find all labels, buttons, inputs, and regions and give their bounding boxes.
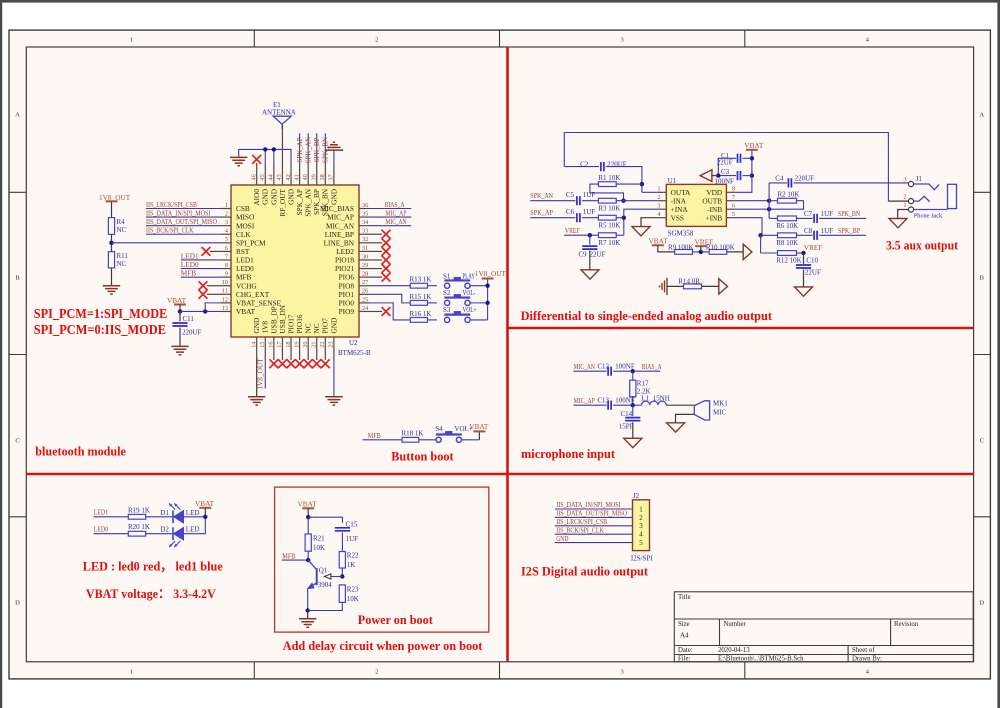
wire -INB pin 6 — [735, 208, 769, 210]
wire R14 to arrow — [702, 285, 719, 287]
svg-text:3.5 aux output: 3.5 aux output — [886, 238, 959, 253]
svg-text:2020-04-13: 2020-04-13 — [718, 647, 750, 654]
svg-text:C: C — [15, 437, 19, 444]
svg-text:19: 19 — [293, 342, 300, 348]
svg-text:2: 2 — [375, 36, 378, 43]
junction VBAT rail D1 — [203, 515, 207, 519]
U2 pin 31 stub — [359, 250, 369, 252]
svg-text:10K: 10K — [347, 595, 359, 603]
svg-text:L1: L1 — [641, 394, 649, 402]
svg-text:7: 7 — [225, 253, 228, 260]
svg-text:MFB: MFB — [282, 552, 295, 560]
wire R1 left routing to -INA node — [590, 184, 624, 201]
svg-text:1V8_OUT: 1V8_OUT — [475, 269, 507, 278]
wire net IIS_BCK/SPI_CLK to J2 pin 4 — [555, 533, 633, 535]
Q1 base arrowhead — [324, 574, 331, 579]
earth symbol above pin 37 — [325, 142, 344, 150]
svg-text:D2: D2 — [160, 526, 169, 534]
svg-text:Phone Jack: Phone Jack — [914, 212, 943, 219]
wire net IIS_DATA_IN/SPI_MOSI to pin 2 — [146, 216, 221, 218]
wire S1 to 1V8_OUT rail — [470, 285, 488, 287]
svg-text:S3: S3 — [443, 306, 451, 314]
svg-text:45: 45 — [259, 174, 266, 180]
wire R6 to C7 — [797, 217, 813, 219]
svg-text:12: 12 — [222, 296, 228, 303]
U2 pin 13 stub — [221, 310, 231, 312]
svg-text:VBAT: VBAT — [236, 307, 256, 316]
junction pin 45 — [263, 147, 267, 151]
svg-text:VREF: VREF — [565, 227, 580, 235]
svg-text:IIS_BCK/SPI_CLK: IIS_BCK/SPI_CLK — [556, 526, 604, 534]
wire net LED0 to pin 8 — [181, 268, 221, 270]
svg-text:R2 10K: R2 10K — [778, 191, 800, 199]
wire VBAT drop — [478, 431, 480, 439]
no-connect X pin 21 — [312, 359, 321, 368]
wire SPK_AN to C5 — [530, 200, 575, 202]
wire pin 25 jog to R16 — [369, 303, 410, 320]
wire stub pin 29 — [369, 268, 382, 270]
no-connect X pin 11 CHG_EXT — [199, 290, 208, 299]
svg-text:Date:: Date: — [678, 647, 693, 654]
svg-text:SPK_AN: SPK_AN — [530, 192, 553, 200]
switch S4 — [436, 437, 441, 442]
U2 pin 19 stub — [299, 337, 301, 360]
svg-text:R17: R17 — [637, 380, 649, 388]
wire pin 26 jog to R15 — [369, 294, 410, 303]
capacitor C11 — [179, 311, 181, 321]
no-connect X pin 17 — [278, 359, 287, 368]
svg-text:31: 31 — [362, 245, 368, 252]
svg-text:20: 20 — [302, 342, 309, 348]
svg-text:3: 3 — [620, 668, 623, 675]
bluetooth module chip U2 body — [231, 185, 359, 337]
wire R9 to VREF junction — [693, 251, 710, 253]
svg-text:R23: R23 — [347, 586, 359, 594]
wire C7 to SPK_BN — [819, 217, 866, 219]
svg-text:1V8_OUT: 1V8_OUT — [256, 358, 265, 390]
svg-text:SPK_AP: SPK_AP — [530, 209, 553, 217]
junction BIAS_A/R17 — [631, 369, 635, 373]
svg-text:IIS_DATA_OUT/SPI_MISO: IIS_DATA_OUT/SPI_MISO — [146, 218, 217, 226]
U2 pin 40 stub — [307, 163, 309, 185]
svg-text:VBAT: VBAT — [744, 141, 764, 150]
svg-text:C13: C13 — [597, 396, 609, 404]
svg-text:9: 9 — [225, 271, 228, 278]
junction MFB/R21/Q1 — [306, 558, 310, 562]
wire R20 to D2 — [146, 533, 173, 535]
svg-text:MFB: MFB — [368, 432, 381, 440]
resistor R2 — [778, 198, 797, 203]
wire R18 to S4 — [419, 439, 439, 441]
svg-text:7: 7 — [732, 194, 735, 201]
svg-text:R8 10K: R8 10K — [776, 239, 798, 247]
svg-text:IIS_DATA_IN/SPI_MOSI: IIS_DATA_IN/SPI_MOSI — [146, 209, 211, 217]
wire C3 left lead — [718, 175, 736, 177]
wire L1 to microphone — [666, 404, 694, 406]
wire jog to VBAT_SENSE pin 12 — [205, 303, 221, 312]
no-connect X pin 46 — [252, 155, 261, 164]
svg-text:3: 3 — [225, 219, 228, 226]
U2 pin 17 stub — [281, 337, 283, 360]
ground power-on-boot — [299, 619, 316, 627]
junction C1 right — [750, 156, 754, 160]
svg-text:24: 24 — [362, 305, 369, 312]
svg-text:U1: U1 — [668, 177, 677, 185]
wire net IIS_DATA_OUT/SPI_MISO to pin 3 — [146, 225, 221, 227]
svg-text:32: 32 — [362, 236, 368, 243]
svg-text:1K: 1K — [347, 561, 356, 569]
junction R9/R10/VREF — [699, 250, 703, 254]
svg-text:3: 3 — [903, 177, 906, 184]
U2 pin 6 stub — [221, 250, 231, 252]
svg-text:MK1: MK1 — [713, 400, 728, 408]
svg-text:bluetooth module: bluetooth module — [35, 444, 126, 459]
svg-text:15NH: 15NH — [653, 394, 670, 402]
svg-text:B: B — [980, 274, 985, 281]
svg-text:17: 17 — [276, 342, 283, 348]
no-connect X pin 20 — [304, 359, 313, 368]
svg-text:C5: C5 — [566, 191, 575, 199]
no-connect X pin 28 — [382, 273, 391, 282]
wire pin 44 to GND bus — [273, 149, 275, 163]
svg-text:1UF: 1UF — [821, 210, 834, 218]
junction C3/arrow — [716, 173, 720, 177]
resistor R6 — [778, 216, 797, 221]
svg-text:5: 5 — [732, 211, 735, 218]
svg-text:R6 10K: R6 10K — [776, 222, 798, 230]
svg-text:22UF: 22UF — [590, 250, 606, 258]
wire BIAS_A label — [633, 370, 661, 372]
svg-text:14: 14 — [251, 341, 258, 348]
svg-text:VBAT: VBAT — [649, 236, 669, 245]
wire net MIC_AN pin 34 — [369, 225, 411, 227]
wire D1 to VBAT rail — [184, 516, 206, 518]
no-connect X pin 33 — [382, 230, 391, 239]
resistor R14 — [684, 284, 702, 289]
wire +INA jog — [624, 209, 658, 235]
zone tick left B|C — [9, 354, 26, 356]
no-connect X pin 30 — [382, 256, 391, 265]
svg-text:IIS_DATA_OUT/SPI_MISO: IIS_DATA_OUT/SPI_MISO — [556, 510, 627, 518]
switch S1 — [445, 283, 450, 288]
svg-text:D: D — [979, 599, 984, 606]
wire net IIS_LRCK/SPI_CSB to pin 1 — [146, 208, 221, 210]
svg-text:MIC_AN: MIC_AN — [386, 218, 407, 226]
red divider horizontal y=328 (right half) — [508, 327, 974, 330]
svg-text:R7 10K: R7 10K — [598, 239, 620, 247]
jack tip contact — [914, 184, 939, 190]
U2 pin 30 stub — [359, 259, 369, 261]
svg-text:100NF: 100NF — [615, 362, 635, 370]
svg-text:SPI_PCM=0:IIS_MODE: SPI_PCM=0:IIS_MODE — [34, 322, 166, 337]
U1 pin 8 stub — [726, 191, 735, 193]
svg-text:GND: GND — [556, 535, 568, 543]
svg-text:VOL-: VOL- — [463, 289, 477, 297]
wire R22 to base junction — [341, 568, 343, 577]
jack J1 pin 2 circle — [908, 199, 913, 204]
svg-text:IIS_DATA_IN/SPI_MOSI: IIS_DATA_IN/SPI_MOSI — [556, 501, 621, 509]
svg-text:C4: C4 — [775, 174, 784, 182]
wire R16 to switch S3 — [428, 319, 437, 321]
window dark edge right — [997, 0, 1000, 708]
wire C8 to SPK_BP — [819, 234, 866, 236]
svg-text:VSS: VSS — [671, 213, 684, 222]
svg-text:SPK_BP: SPK_BP — [313, 137, 321, 162]
svg-text:LED1: LED1 — [94, 509, 109, 517]
svg-text:2: 2 — [657, 194, 660, 201]
U2 pin 15 stub — [264, 337, 266, 360]
wire R12 left lead — [761, 252, 778, 254]
U2 pin 46 stub — [256, 163, 258, 185]
wire antenna to RF_OUT pin 43 — [281, 125, 283, 164]
svg-text:PIO9: PIO9 — [339, 307, 355, 316]
junction +INB node — [758, 233, 762, 237]
resistor R23 — [339, 585, 345, 603]
svg-text:13: 13 — [222, 305, 228, 312]
wire net BIAS_A pin 36 — [369, 208, 411, 210]
wire VBAT to junction — [307, 508, 309, 517]
U2 pin 2 stub — [221, 216, 231, 218]
no-connect X pin 6 RST — [202, 247, 211, 256]
svg-text:R4: R4 — [117, 218, 126, 226]
wire C12 to BIAS_A junction — [613, 370, 633, 372]
svg-text:1: 1 — [639, 505, 643, 513]
wire +INB jog down — [735, 218, 762, 236]
resistor R20 — [128, 531, 145, 536]
window dark edge left — [0, 0, 2, 708]
wire pin 23 to ground — [333, 360, 335, 397]
U2 pin 18 stub — [290, 337, 292, 360]
svg-text:1UF: 1UF — [583, 208, 596, 216]
wire net IIS_DATA_OUT/SPI_MISO to J2 pin 2 — [555, 516, 633, 518]
svg-text:42: 42 — [285, 174, 292, 180]
zone tick left A|B — [9, 191, 26, 193]
svg-text:5: 5 — [225, 236, 228, 243]
no-connect X pin 10 VCHG — [199, 281, 208, 290]
wire pin 45 to GND bus — [264, 149, 266, 163]
diode D1 LED — [172, 510, 174, 523]
svg-text:ANTENNA: ANTENNA — [262, 109, 296, 117]
jack J1 pin 1 circle — [908, 207, 913, 212]
title block line under Title row — [674, 618, 973, 620]
U2 pin 10 stub — [221, 285, 231, 287]
wire ground stem (power on boot) — [307, 611, 309, 619]
svg-text:A: A — [979, 111, 984, 118]
svg-text:46: 46 — [251, 174, 258, 180]
no-connect X pin 31 — [382, 247, 391, 256]
wire stub pin 11 — [207, 293, 221, 295]
svg-text:15: 15 — [259, 342, 266, 348]
svg-text:MIC_AN: MIC_AN — [574, 363, 595, 371]
wire VREF port stem — [700, 246, 702, 252]
svg-text:34: 34 — [362, 219, 369, 226]
wire OUTB pin 7 — [735, 200, 769, 202]
wire C1 right lead — [743, 157, 752, 159]
svg-text:R21: R21 — [313, 535, 325, 543]
svg-text:B: B — [15, 274, 20, 281]
svg-text:22UF: 22UF — [805, 269, 821, 277]
svg-text:1: 1 — [225, 202, 228, 209]
wire MK1 to ground — [676, 414, 695, 422]
svg-text:C10: C10 — [806, 256, 818, 264]
U2 pin 21 stub — [316, 337, 318, 360]
U2 pin 28 stub — [359, 276, 369, 278]
svg-text:PLAY: PLAY — [463, 273, 476, 281]
junction MIC_AP/R17/L1/C14 — [631, 403, 635, 407]
wire R19 to D1 — [146, 516, 173, 518]
ground triangle below C9 — [581, 270, 599, 279]
U2 pin 7 stub — [221, 259, 231, 261]
U2 pin 45 stub — [264, 163, 266, 185]
junction OUTB node — [767, 199, 771, 203]
U1 pin 7 stub — [726, 200, 735, 202]
junction VBAT/C11 — [178, 309, 182, 313]
wire LED0 to R20 — [94, 533, 129, 535]
title block vline Size|Number — [719, 619, 721, 646]
resistor R3 — [598, 198, 616, 203]
wire C15 to R22 — [341, 532, 343, 551]
svg-text:100NF: 100NF — [715, 177, 735, 185]
power arrow port (VDD) — [700, 170, 712, 182]
svg-text:2: 2 — [225, 210, 228, 217]
junction R4/R11/pin5 — [109, 241, 113, 245]
wire R12 to VREF junction — [797, 252, 804, 254]
svg-text:43: 43 — [276, 174, 283, 180]
wire R17 to MIC_AP junction — [632, 397, 634, 406]
wire C3 right lead — [743, 175, 752, 177]
svg-text:VREF: VREF — [804, 243, 823, 252]
svg-text:1UF: 1UF — [583, 191, 596, 199]
U1 pin 4 stub — [658, 217, 667, 219]
svg-text:R9 100K: R9 100K — [668, 243, 693, 251]
svg-text:SPK_AN: SPK_AN — [304, 137, 312, 163]
svg-text:A: A — [15, 111, 20, 118]
svg-text:25: 25 — [362, 296, 368, 303]
resistor R18 — [402, 437, 419, 442]
no-connect X pin 29 — [382, 264, 391, 273]
junction rail S2 — [485, 301, 489, 305]
svg-text:3904: 3904 — [318, 581, 333, 589]
svg-text:28: 28 — [362, 271, 368, 278]
wire VREF to R7 — [564, 234, 598, 236]
svg-text:R11: R11 — [117, 252, 129, 260]
resistor R22 — [339, 552, 345, 569]
U2 pin 34 stub — [359, 225, 369, 227]
svg-text:LED0: LED0 — [94, 526, 109, 534]
wire C13 to junction — [613, 404, 633, 406]
resistor R8 — [778, 233, 797, 238]
svg-text:220UF: 220UF — [182, 329, 202, 337]
svg-text:30: 30 — [362, 253, 368, 260]
wire R11 to ground — [111, 268, 113, 286]
U1 pin 5 stub — [726, 217, 735, 219]
svg-text:microphone input: microphone input — [521, 446, 616, 461]
svg-text:Revision: Revision — [894, 621, 919, 628]
U2 pin 16 stub — [273, 337, 275, 360]
svg-text:LED: LED — [186, 526, 200, 534]
resistor R19 — [128, 514, 145, 519]
wire MIC_AN to C12 — [573, 370, 606, 372]
jack pin 1 wire to sleeve — [914, 209, 948, 211]
U2 pin 4 stub — [221, 233, 231, 235]
capacitor C14 — [625, 418, 640, 421]
wire S4 to VBAT — [461, 439, 479, 441]
wire R2 right jog to -INB — [769, 201, 803, 210]
ground triangle below jack — [889, 219, 907, 228]
jack sleeve rectangle — [948, 184, 957, 208]
svg-text:R18 1K: R18 1K — [402, 430, 424, 438]
wire R8 left lead — [761, 234, 778, 236]
wire VBAT to pin 13 — [180, 310, 221, 312]
1V8_OUT rail vertical — [487, 279, 489, 320]
wire OUTA node to pin 1 — [642, 191, 658, 193]
wire +INB to R12 vertical — [760, 235, 762, 253]
U1 pin 2 stub — [658, 200, 667, 202]
svg-text:E:\Bluetooth\..\BTM625-B.Sch: E:\Bluetooth\..\BTM625-B.Sch — [718, 655, 804, 662]
svg-text:C3: C3 — [721, 168, 730, 176]
svg-text:2: 2 — [639, 514, 643, 522]
wire stub pin 32 — [369, 242, 382, 244]
switch S3 — [445, 317, 450, 322]
wire jack vertical to pin 2 — [888, 200, 908, 202]
svg-text:LED: LED — [186, 509, 200, 517]
wire VBAT port to D1 row — [204, 508, 206, 517]
svg-text:I2S Digital audio output: I2S Digital audio output — [521, 564, 649, 579]
wire C4 to jack pin 3 — [793, 182, 908, 184]
wire pin 15 1V8 net — [264, 360, 266, 389]
wire MIC_AP to C13 — [573, 404, 606, 406]
junction rail S1 — [485, 284, 489, 288]
svg-text:Add delay circuit when power o: Add delay circuit when power on boot — [283, 638, 483, 653]
svg-text:GND: GND — [329, 318, 338, 334]
title block line under Size row — [674, 645, 973, 647]
wire R2 left lead — [769, 200, 777, 202]
ground top-left of U2 — [230, 157, 247, 165]
svg-text:BIAS_A: BIAS_A — [385, 201, 405, 209]
wire stub pin 28 — [369, 276, 382, 278]
svg-text:VBAT voltage： 3.3-4.2V: VBAT voltage： 3.3-4.2V — [86, 586, 217, 601]
wire R4 to R11 with junction — [111, 234, 113, 251]
wire LED1 to R19 — [94, 516, 129, 518]
svg-text:R12 10K: R12 10K — [776, 256, 801, 264]
U2 pin 12 stub — [221, 302, 231, 304]
svg-text:R13 1K: R13 1K — [410, 276, 432, 284]
resistor R7 — [598, 233, 616, 238]
wire stub pin 30 — [369, 259, 382, 261]
svg-text:15PF: 15PF — [619, 422, 634, 430]
title block outline — [674, 592, 973, 662]
ground below pin 14 — [248, 397, 265, 405]
U2 pin 29 stub — [359, 268, 369, 270]
wire R5 to +INA node — [616, 217, 624, 219]
svg-text:44: 44 — [268, 173, 275, 180]
wire C6 to R5 — [582, 217, 599, 219]
wire 1V8_OUT to R4 — [111, 201, 113, 217]
svg-text:C6: C6 — [566, 208, 575, 216]
ground below C11 — [171, 346, 188, 354]
resistor R9 — [675, 250, 693, 255]
svg-text:VBAT: VBAT — [469, 422, 489, 431]
capacitor C9 — [589, 235, 591, 244]
U2 pin 22 stub — [324, 337, 326, 360]
wire Q1 emitter down — [307, 589, 309, 611]
svg-text:1: 1 — [130, 36, 133, 43]
junction R1/OUTA node — [640, 182, 644, 186]
U2 pin 11 stub — [221, 293, 231, 295]
capacitor C12 — [608, 367, 611, 376]
svg-text:Title: Title — [678, 594, 691, 601]
svg-text:I2S/SPI: I2S/SPI — [631, 554, 653, 562]
